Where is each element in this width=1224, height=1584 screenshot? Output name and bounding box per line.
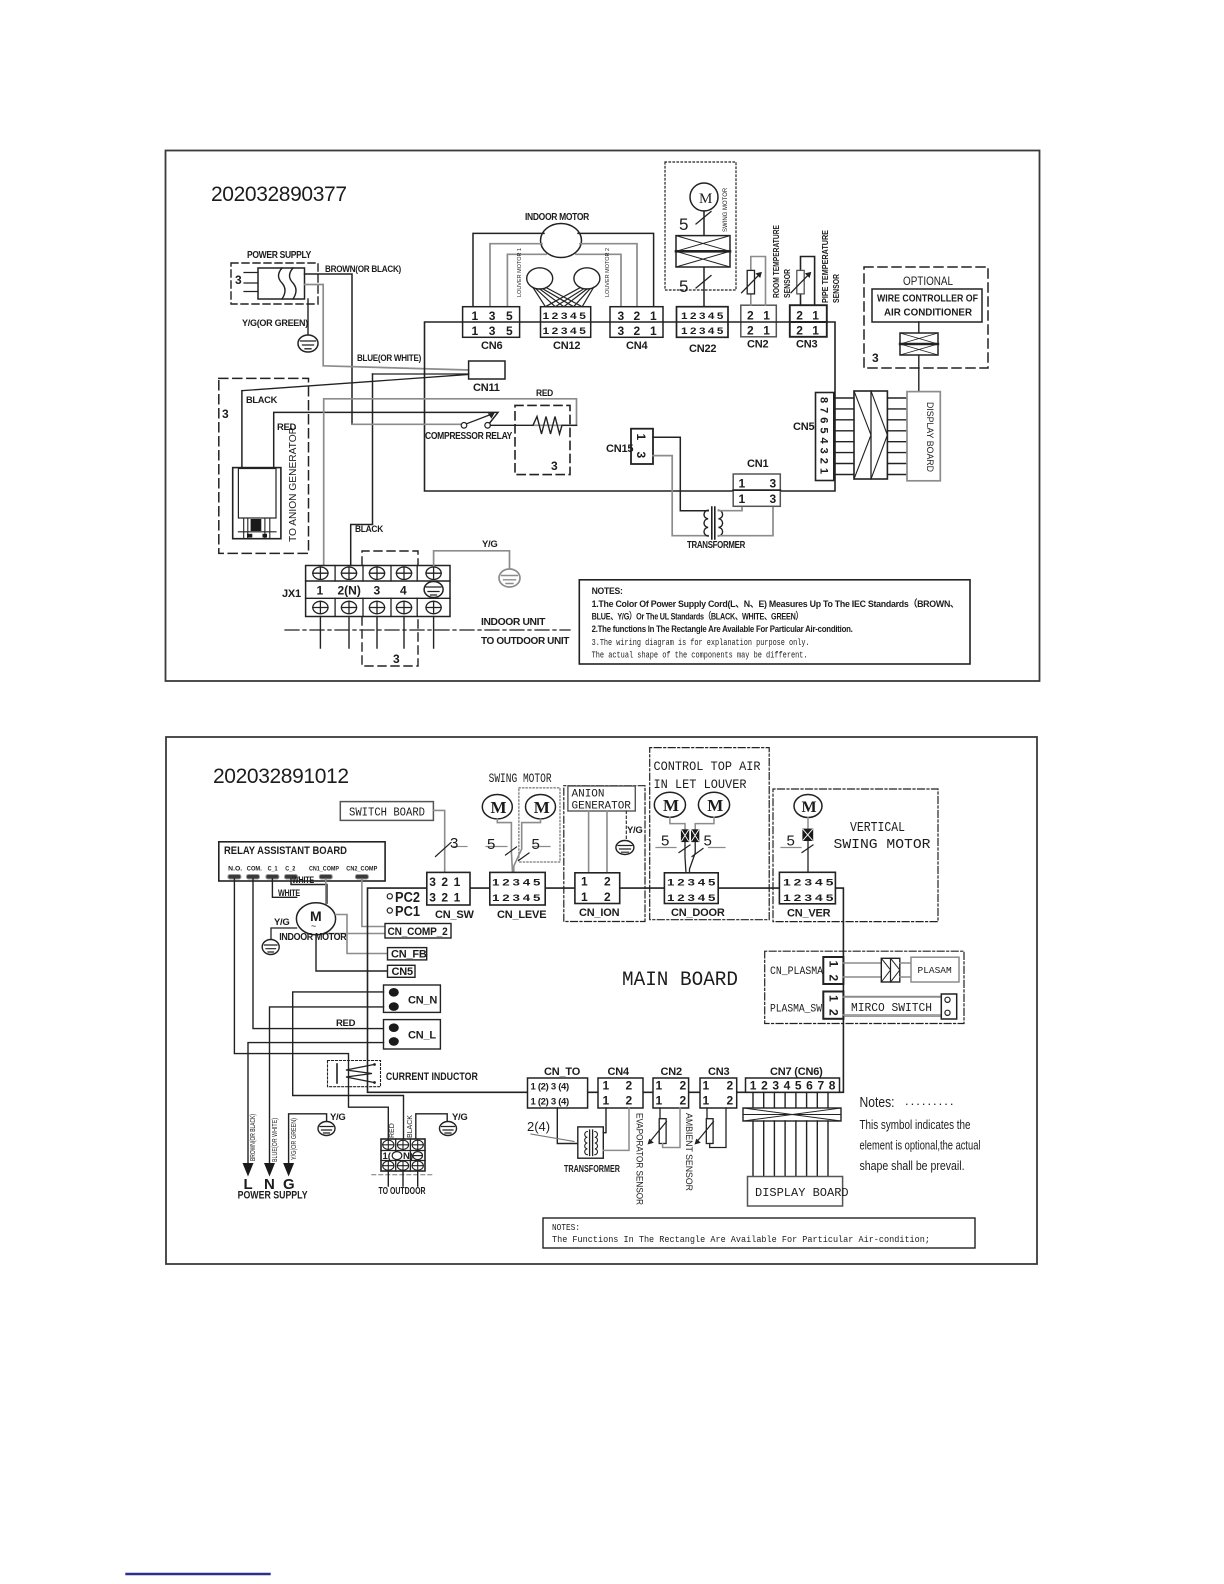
CN_N box bbox=[384, 985, 441, 1012]
current inductor bbox=[328, 1061, 478, 1087]
room temp thermistor bbox=[742, 270, 762, 294]
connector CN2 bbox=[741, 305, 777, 350]
label BLACK (anion) bbox=[246, 395, 277, 406]
svg-text:CN_DOOR: CN_DOOR bbox=[671, 907, 725, 919]
svg-text:1 2 3 4 5: 1 2 3 4 5 bbox=[543, 311, 587, 322]
svg-text:TRANSFORMER: TRANSFORMER bbox=[564, 1163, 620, 1175]
wire black anion bbox=[241, 391, 243, 468]
label RED (CN_L wire) bbox=[336, 1018, 356, 1029]
svg-text:CN12: CN12 bbox=[553, 340, 580, 352]
connector CN12 bbox=[541, 307, 591, 352]
svg-text:1: 1 bbox=[472, 324, 479, 338]
svg-text:1 2 3 4 5: 1 2 3 4 5 bbox=[543, 326, 587, 337]
svg-text:OPTIONAL: OPTIONAL bbox=[903, 276, 954, 288]
svg-text:BROWN(OR BLACK): BROWN(OR BLACK) bbox=[250, 1114, 257, 1161]
svg-text:1(: 1( bbox=[383, 1151, 392, 1162]
svg-text:INDOOR MOTOR: INDOOR MOTOR bbox=[525, 211, 590, 223]
MAIN BOARD label bbox=[622, 969, 738, 992]
swing motor capacitor symbol (top) bbox=[676, 236, 730, 267]
svg-text:2: 2 bbox=[626, 1094, 633, 1108]
svg-text:3: 3 bbox=[429, 891, 436, 905]
louver motor 1 bbox=[517, 248, 553, 297]
svg-text:C_2: C_2 bbox=[285, 866, 295, 873]
wire red anion to relay bbox=[274, 412, 498, 467]
svg-text:AMBIENT SENSOR: AMBIENT SENSOR bbox=[683, 1113, 694, 1191]
swing motor wires to CN_LEVE bbox=[486, 819, 550, 873]
motor bottom wire to CN5 bbox=[316, 935, 388, 971]
control top air dotted box bbox=[650, 748, 770, 920]
wire CN_N dot1 to outdoor col2 bbox=[293, 992, 404, 1139]
svg-text:DISPLAY BOARD: DISPLAY BOARD bbox=[755, 1186, 849, 1200]
svg-text:MAIN BOARD: MAIN BOARD bbox=[622, 969, 738, 992]
wire blue bbox=[305, 285, 469, 371]
svg-text:1: 1 bbox=[827, 961, 841, 968]
svg-text:INDOOR UNIT: INDOOR UNIT bbox=[481, 616, 546, 628]
svg-text:CN_L: CN_L bbox=[408, 1030, 436, 1042]
svg-text:2: 2 bbox=[796, 309, 803, 323]
svg-text:The Functions In The Rectangle: The Functions In The Rectangle Are Avail… bbox=[552, 1234, 930, 1245]
svg-text:TO ANION GENERATOR: TO ANION GENERATOR bbox=[287, 427, 299, 542]
svg-text:SWING MOTOR: SWING MOTOR bbox=[834, 838, 931, 853]
to outdoor terminal block bbox=[372, 1139, 435, 1197]
indoor motor wires left to CN6 bbox=[473, 233, 546, 306]
svg-text:CN11: CN11 bbox=[473, 382, 500, 394]
svg-text:ANION: ANION bbox=[572, 789, 605, 801]
svg-text:1 2 3 4 5: 1 2 3 4 5 bbox=[667, 878, 716, 889]
svg-text:RED: RED bbox=[336, 1018, 356, 1029]
relay board pads bbox=[228, 875, 369, 880]
svg-text:CN15: CN15 bbox=[606, 443, 633, 455]
svg-text:5: 5 bbox=[679, 277, 688, 296]
svg-text:1: 1 bbox=[581, 890, 588, 904]
louver motor fan wires to CN12 bbox=[533, 288, 594, 307]
evaporator sensor bbox=[634, 1108, 681, 1205]
svg-text:CN_PLASMA: CN_PLASMA bbox=[770, 966, 823, 978]
power supply arrows L N G bbox=[243, 1163, 295, 1177]
svg-text:1: 1 bbox=[634, 434, 648, 441]
wire G arrow to ground1 bbox=[289, 1114, 327, 1163]
svg-text:3: 3 bbox=[618, 309, 625, 323]
ground power supply bbox=[298, 335, 318, 352]
svg-text:INDOOR MOTOR: INDOOR MOTOR bbox=[279, 931, 347, 943]
RED BLACK rotated labels (outdoor) bbox=[389, 1115, 414, 1138]
svg-text:1: 1 bbox=[656, 1094, 663, 1108]
svg-text:CN6: CN6 bbox=[481, 340, 502, 352]
svg-text:1 2 3 4 5: 1 2 3 4 5 bbox=[681, 311, 724, 322]
wire controller connector symbol bbox=[900, 322, 938, 392]
connector CN_SW bbox=[427, 872, 475, 921]
svg-text:2: 2 bbox=[680, 1094, 687, 1108]
pipe temp thermistor bbox=[791, 270, 811, 294]
svg-text:M: M bbox=[663, 796, 679, 815]
room temperature sensor loop bbox=[751, 257, 766, 306]
JX1 terminal block bbox=[282, 566, 450, 617]
svg-text:POWER SUPPLY: POWER SUPPLY bbox=[238, 1190, 309, 1202]
svg-text:CN2: CN2 bbox=[747, 339, 768, 351]
wire controller box bbox=[872, 289, 982, 322]
wires CN4 to transformer bbox=[603, 1108, 629, 1150]
svg-text:1: 1 bbox=[763, 309, 770, 323]
svg-text:5: 5 bbox=[679, 215, 688, 234]
svg-text:Y/G: Y/G bbox=[274, 917, 289, 928]
svg-text:Y/G(OR GREEN): Y/G(OR GREEN) bbox=[291, 1118, 298, 1160]
JX1 screws bottom row bbox=[313, 601, 441, 613]
wire brown bbox=[305, 274, 353, 424]
JX1 dashed box 3 bbox=[362, 551, 418, 666]
svg-text:LOUVER MOTOR 1: LOUVER MOTOR 1 bbox=[517, 248, 523, 297]
wire C_2 to motor top bbox=[291, 875, 327, 903]
L N G labels bbox=[238, 1176, 309, 1202]
wires CN15 to transformer bbox=[653, 437, 708, 536]
connector CN22 bbox=[677, 307, 729, 355]
title 202032890377 bbox=[211, 183, 347, 206]
svg-text:3: 3 bbox=[489, 324, 496, 338]
connector CN_VER bbox=[779, 872, 835, 919]
svg-text:1: 1 bbox=[812, 309, 819, 323]
svg-text:1: 1 bbox=[703, 1079, 710, 1093]
svg-text:EVAPORATOR SENSOR: EVAPORATOR SENSOR bbox=[634, 1113, 645, 1205]
svg-text:SWING MOTOR: SWING MOTOR bbox=[723, 187, 729, 232]
svg-text:1 2 3 4 5: 1 2 3 4 5 bbox=[783, 878, 834, 889]
connector CN4 bbox=[610, 307, 663, 352]
motor right wire to CN_FB bbox=[335, 915, 387, 954]
swing motor dotted box (top) bbox=[665, 162, 736, 290]
svg-text:CONTROL TOP AIR: CONTROL TOP AIR bbox=[654, 759, 761, 774]
svg-text:Y/G: Y/G bbox=[452, 1112, 467, 1123]
svg-text:1 (2) 3 (4): 1 (2) 3 (4) bbox=[531, 1082, 570, 1093]
connector CN_DOOR bbox=[664, 873, 724, 919]
ribbon cable (top) bbox=[834, 391, 907, 479]
svg-text:CN_TO: CN_TO bbox=[544, 1066, 581, 1078]
connector CN6 bbox=[463, 307, 520, 352]
connector CN3 bbox=[790, 305, 827, 350]
heater resistor dashed box bbox=[515, 388, 570, 475]
svg-text:2: 2 bbox=[604, 875, 611, 889]
connector CN7 (CN6) bbox=[746, 1066, 841, 1093]
svg-text:M: M bbox=[699, 191, 712, 207]
svg-text:5: 5 bbox=[506, 324, 513, 338]
svg-text:M: M bbox=[802, 799, 817, 816]
indoor motor label bbox=[525, 211, 590, 223]
svg-text:3: 3 bbox=[872, 351, 879, 365]
notes right block bbox=[860, 1093, 981, 1173]
svg-text:M: M bbox=[707, 796, 723, 815]
svg-text:CN1: CN1 bbox=[747, 458, 768, 470]
svg-text:1 (2) 3 (4): 1 (2) 3 (4) bbox=[531, 1097, 570, 1108]
svg-text:87654321: 87654321 bbox=[818, 397, 830, 478]
svg-text:NOTES:: NOTES: bbox=[552, 1222, 580, 1233]
svg-text:3: 3 bbox=[393, 652, 400, 666]
svg-text:RED: RED bbox=[389, 1123, 396, 1138]
svg-text:CN22: CN22 bbox=[689, 343, 716, 355]
connector CN15 bbox=[606, 429, 653, 464]
CN5 box (bottom) bbox=[388, 965, 416, 978]
swing motor M2 (bottom) bbox=[526, 795, 556, 819]
svg-text:3: 3 bbox=[235, 273, 242, 287]
louver 5 marks + wires to CN_DOOR bbox=[656, 833, 725, 873]
svg-text:2(N): 2(N) bbox=[338, 584, 361, 598]
svg-text:1 2 3 4 5: 1 2 3 4 5 bbox=[492, 878, 541, 889]
svg-text:TO OUTDOOR UNIT: TO OUTDOOR UNIT bbox=[481, 635, 570, 647]
transformer (bottom) bbox=[564, 1127, 620, 1175]
svg-text:1 2 3 4 5: 1 2 3 4 5 bbox=[783, 893, 834, 904]
rotated wire color labels bbox=[250, 1114, 298, 1162]
ground wire power supply bbox=[307, 299, 309, 334]
svg-text:1: 1 bbox=[812, 324, 819, 338]
svg-text:1: 1 bbox=[739, 477, 746, 491]
CN_PLASMA connector bbox=[770, 957, 843, 984]
svg-text:SENSOR: SENSOR bbox=[782, 269, 792, 298]
indoor motor wires right to CN4 bbox=[576, 233, 654, 306]
PLASMA_SW connector bbox=[770, 992, 843, 1019]
wire black JX1-2 bbox=[351, 374, 384, 566]
anion generator component bbox=[233, 468, 281, 539]
wire CN_N dot2 to N arrow bbox=[270, 1007, 384, 1163]
svg-text:MIRCO SWITCH: MIRCO SWITCH bbox=[851, 1002, 932, 1015]
svg-text:VERTICAL: VERTICAL bbox=[850, 821, 905, 836]
svg-text:3: 3 bbox=[634, 452, 648, 459]
svg-text:1: 1 bbox=[650, 324, 657, 338]
svg-text:SENSOR: SENSOR bbox=[831, 274, 841, 303]
svg-text:3: 3 bbox=[450, 835, 458, 852]
wire CN1_COMP bbox=[326, 879, 385, 934]
plasma dotted box bbox=[765, 951, 964, 1023]
svg-text:RELAY ASSISTANT BOARD: RELAY ASSISTANT BOARD bbox=[224, 845, 347, 857]
svg-text:1: 1 bbox=[650, 309, 657, 323]
indoor motor (bottom) bbox=[279, 903, 347, 943]
label Y/G (OR GREEN) bbox=[242, 318, 308, 329]
svg-text:3: 3 bbox=[770, 492, 777, 506]
label BLUE(OR WHITE) bbox=[357, 353, 421, 364]
svg-text:ROOM TEMPERATURE: ROOM TEMPERATURE bbox=[771, 225, 781, 298]
ribbon cable (bottom) bbox=[743, 1108, 841, 1121]
svg-text:BLACK: BLACK bbox=[355, 524, 383, 535]
power supply plug bbox=[244, 268, 305, 299]
svg-text:1: 1 bbox=[317, 584, 324, 598]
JX1 ground cell symbol bbox=[424, 582, 443, 598]
anion generator wires bbox=[589, 811, 607, 873]
Y/G + ground indoor motor bbox=[262, 917, 296, 955]
svg-text:JX1: JX1 bbox=[282, 588, 301, 600]
svg-text:3: 3 bbox=[374, 584, 381, 598]
vertical swing M bbox=[794, 795, 822, 818]
svg-text:3: 3 bbox=[429, 875, 436, 889]
swing motor label (bottom) bbox=[489, 772, 552, 786]
ground near JX1 bbox=[499, 569, 520, 587]
svg-text:2: 2 bbox=[827, 975, 841, 982]
svg-text:M: M bbox=[534, 798, 550, 817]
svg-text:SWING MOTOR: SWING MOTOR bbox=[489, 772, 552, 786]
wire N.O. to outdoor col1 bbox=[234, 879, 388, 1139]
svg-text:CN1_COMP: CN1_COMP bbox=[309, 866, 339, 873]
svg-text:shape shall be prevail.: shape shall be prevail. bbox=[860, 1158, 965, 1173]
indoor/outdoor dash-dot line bbox=[285, 616, 570, 647]
svg-text:CN2: CN2 bbox=[661, 1066, 682, 1078]
svg-text:2: 2 bbox=[727, 1079, 734, 1093]
title 202032891012 bbox=[213, 765, 349, 788]
wires transformer to CN1 bbox=[718, 506, 773, 535]
svg-text:2: 2 bbox=[747, 309, 754, 323]
svg-text:C_1: C_1 bbox=[268, 866, 278, 873]
svg-text:3: 3 bbox=[551, 459, 558, 473]
Y/G wire to ground bbox=[434, 539, 510, 569]
svg-text:3: 3 bbox=[489, 309, 496, 323]
wire outdoor col3 to ground2 bbox=[416, 1114, 447, 1139]
svg-text:BLACK: BLACK bbox=[407, 1115, 414, 1138]
svg-text:CN_N: CN_N bbox=[408, 995, 437, 1007]
svg-text:RED: RED bbox=[536, 388, 553, 399]
anion generator dashed box (bottom) bbox=[564, 786, 645, 922]
wire CN_L dot2 to L arrow bbox=[248, 1043, 384, 1163]
louver M2 (bottom) bbox=[698, 792, 729, 817]
svg-text:SWITCH BOARD: SWITCH BOARD bbox=[349, 807, 425, 820]
svg-text:PLASMA_SW: PLASMA_SW bbox=[770, 1004, 822, 1016]
svg-text:CN_FB: CN_FB bbox=[391, 949, 427, 961]
svg-text:WIRE CONTROLLER OF: WIRE CONTROLLER OF bbox=[877, 294, 978, 305]
svg-text:IN LET LOUVER: IN LET LOUVER bbox=[654, 777, 747, 792]
svg-text:1: 1 bbox=[763, 324, 770, 338]
vertical swing motor dotted box bbox=[773, 789, 938, 922]
svg-text:POWER SUPPLY: POWER SUPPLY bbox=[247, 249, 311, 261]
wires CN7 to ribbon bbox=[753, 1092, 828, 1108]
svg-text:BLUE、Y/G）Or The UL Standards（B: BLUE、Y/G）Or The UL Standards（BLACK、WHITE… bbox=[592, 611, 803, 623]
transformer (top) bbox=[687, 507, 746, 551]
svg-text:CN4: CN4 bbox=[608, 1066, 630, 1078]
svg-text:1 2 3 4 5: 1 2 3 4 5 bbox=[667, 893, 716, 904]
connector CN5 (top) bbox=[793, 393, 834, 481]
svg-text:TRANSFORMER: TRANSFORMER bbox=[687, 539, 746, 551]
svg-text:.........: ......... bbox=[905, 1093, 956, 1108]
svg-text:WHITE: WHITE bbox=[292, 875, 314, 886]
heater resistor bbox=[490, 417, 576, 435]
connector CN2 (bottom) bbox=[653, 1066, 689, 1108]
svg-text:202032891012: 202032891012 bbox=[213, 765, 349, 788]
svg-text:1 2 3 4 5: 1 2 3 4 5 bbox=[492, 893, 541, 904]
svg-text:1: 1 bbox=[603, 1094, 610, 1108]
svg-text:CN7 (CN6): CN7 (CN6) bbox=[770, 1066, 823, 1078]
svg-text:202032890377: 202032890377 bbox=[211, 183, 347, 206]
connector CN_TO bbox=[528, 1066, 588, 1108]
svg-text:N): N) bbox=[403, 1151, 413, 1162]
anion generator dashed box bbox=[219, 378, 309, 553]
svg-text:The actual shape of the compon: The actual shape of the components may b… bbox=[592, 650, 808, 661]
svg-text:1: 1 bbox=[603, 1079, 610, 1093]
svg-text:Y/G(OR GREEN): Y/G(OR GREEN) bbox=[242, 318, 308, 329]
ambient sensor bbox=[683, 1108, 726, 1191]
svg-text:This symbol indicates the: This symbol indicates the bbox=[860, 1117, 971, 1132]
wire C_1 to motor bbox=[272, 879, 300, 899]
connector CN11 bbox=[469, 361, 505, 394]
pipe temperature sensor loop bbox=[801, 257, 815, 306]
louver M1 (bottom) bbox=[654, 792, 685, 817]
svg-text:4: 4 bbox=[400, 584, 407, 598]
main board outline (bottom) bbox=[368, 888, 844, 1092]
swing motor M (top) bbox=[690, 183, 718, 211]
CN_FB box bbox=[388, 948, 427, 961]
svg-text:CN_ION: CN_ION bbox=[579, 907, 620, 919]
svg-text:1: 1 bbox=[581, 875, 588, 889]
PLASAM box bbox=[911, 957, 959, 982]
svg-text:CN2_COMP: CN2_COMP bbox=[346, 866, 377, 873]
power supply dashed box bbox=[231, 263, 318, 304]
svg-text:2: 2 bbox=[634, 324, 641, 338]
svg-text:BLUE(OR WHITE): BLUE(OR WHITE) bbox=[272, 1118, 279, 1162]
svg-text:1: 1 bbox=[454, 891, 461, 905]
svg-text:PLASAM: PLASAM bbox=[918, 965, 953, 976]
svg-text:1.The Color Of Power Supply Co: 1.The Color Of Power Supply Cord(L、N、E) … bbox=[592, 598, 959, 610]
swing motor M2 dotted box bbox=[519, 788, 560, 862]
svg-text:2: 2 bbox=[747, 324, 754, 338]
main board outline (top) bbox=[425, 322, 836, 491]
svg-text:GENERATOR: GENERATOR bbox=[572, 801, 632, 813]
blue footer line bbox=[127, 1573, 270, 1575]
connector CN3 (bottom) bbox=[700, 1066, 737, 1108]
svg-text:1: 1 bbox=[703, 1094, 710, 1108]
svg-text:CN_LEVE: CN_LEVE bbox=[497, 909, 546, 921]
wire CN2_COMP bbox=[362, 879, 385, 927]
notes box (top diagram) bbox=[579, 580, 970, 664]
svg-text:3: 3 bbox=[222, 407, 229, 421]
swing motor M1 (bottom) bbox=[482, 795, 512, 819]
svg-text:1: 1 bbox=[827, 995, 841, 1002]
label BROWN(OR BLACK) bbox=[325, 264, 401, 275]
svg-text:CN3: CN3 bbox=[708, 1066, 729, 1078]
svg-text:1: 1 bbox=[454, 875, 461, 889]
compressor relay wires bbox=[324, 399, 577, 566]
JX1 screws top row bbox=[313, 567, 441, 579]
compressor relay bbox=[425, 413, 512, 442]
svg-text:3: 3 bbox=[618, 324, 625, 338]
svg-text:PC1: PC1 bbox=[395, 904, 420, 920]
svg-text:COM.: COM. bbox=[247, 866, 262, 873]
optional dashed box bbox=[864, 267, 988, 368]
svg-text:WHITE: WHITE bbox=[278, 888, 300, 899]
svg-text:3: 3 bbox=[770, 477, 777, 491]
svg-text:2: 2 bbox=[796, 324, 803, 338]
svg-text:Y/G: Y/G bbox=[482, 539, 497, 550]
display board (top) bbox=[907, 392, 940, 481]
svg-text:CN3: CN3 bbox=[796, 339, 817, 351]
plasma wires + coupler bbox=[843, 958, 911, 982]
svg-text:TO OUTDOOR: TO OUTDOOR bbox=[379, 1186, 427, 1197]
connector CN_ION bbox=[575, 873, 620, 919]
vertical swing connector + wire bbox=[781, 818, 813, 873]
anion generator label box bbox=[568, 786, 635, 813]
svg-text:2: 2 bbox=[626, 1079, 633, 1093]
svg-text:2: 2 bbox=[441, 875, 448, 889]
CN_L box bbox=[384, 1020, 441, 1049]
connector CN_LEVE bbox=[490, 872, 547, 921]
PC2 PC1 bbox=[387, 890, 420, 920]
svg-text:CN4: CN4 bbox=[626, 340, 648, 352]
svg-text:M: M bbox=[491, 798, 507, 817]
svg-text:2.The functions In The Rectang: 2.The functions In The Rectangle Are Ava… bbox=[592, 624, 853, 635]
label TO ANION GENERATOR bbox=[287, 427, 299, 542]
wire COM to CN_L dot1 bbox=[253, 879, 384, 1029]
svg-text:2: 2 bbox=[441, 891, 448, 905]
svg-text:2: 2 bbox=[827, 1009, 841, 1016]
svg-text:Y/G: Y/G bbox=[330, 1112, 345, 1123]
svg-text:CURRENT INDUCTOR: CURRENT INDUCTOR bbox=[386, 1071, 478, 1083]
swing motor wire + 5 marks (top) bbox=[679, 211, 711, 307]
svg-text:1: 1 bbox=[656, 1079, 663, 1093]
wires ribbon to display board bbox=[753, 1121, 828, 1177]
louver motor connectors (hatched squares) bbox=[670, 817, 714, 842]
label RED (anion) bbox=[277, 422, 296, 433]
ground2 (bottom) bbox=[440, 1112, 468, 1136]
svg-text:DISPLAY BOARD: DISPLAY BOARD bbox=[925, 402, 935, 472]
wire CN_TO to transformer bbox=[527, 1108, 578, 1144]
